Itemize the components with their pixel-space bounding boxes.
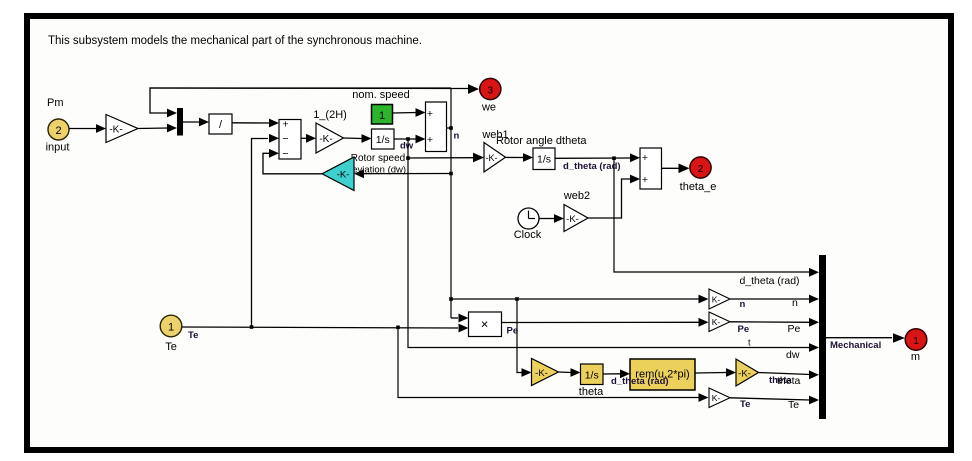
svg-text:This subsystem models the mech: This subsystem models the mechanical par… <box>48 35 422 47</box>
svg-text:input: input <box>46 142 70 154</box>
input port Pm (2) <box>48 119 69 140</box>
wire gain to integrator 1/s <box>344 137 363 140</box>
svg-text:1: 1 <box>379 110 385 122</box>
svg-text:Pe: Pe <box>507 325 519 336</box>
svg-text:K-: K- <box>712 317 721 327</box>
svg-text:1: 1 <box>168 321 174 333</box>
wire 1/s to sum3 <box>555 157 630 159</box>
integrator 1/s (dw) <box>372 129 395 149</box>
product block <box>469 312 502 337</box>
svg-text:-K-: -K- <box>738 368 751 379</box>
svg-text:Te: Te <box>188 330 198 341</box>
svg-text:2: 2 <box>698 164 704 175</box>
gain theta (yellow) <box>532 359 559 386</box>
svg-text:−: − <box>282 148 288 160</box>
junction Te-sum1 <box>250 325 254 329</box>
constant block 1 (green) <box>372 105 393 125</box>
svg-text:Clock: Clock <box>514 229 542 241</box>
gain n (small white) <box>709 289 730 309</box>
svg-text:d_theta (rad): d_theta (rad) <box>611 376 669 387</box>
svg-text:dw: dw <box>786 349 800 361</box>
svg-text:K-: K- <box>712 294 721 304</box>
wire mux1 to divide <box>183 121 200 123</box>
svg-text:1: 1 <box>913 336 919 347</box>
input port Te (1) <box>160 315 182 337</box>
svg-text:d_theta (rad): d_theta (rad) <box>739 275 799 287</box>
wire sum1 to gain 1_(2H) <box>301 137 307 139</box>
mux Mechanical <box>819 255 826 419</box>
divide block / <box>209 114 232 134</box>
svg-text:1/s: 1/s <box>537 154 551 166</box>
svg-text:theta: theta <box>579 386 604 398</box>
gain 1_(2H) <box>316 123 344 153</box>
integrator 1/s theta (yellow) <box>581 364 604 385</box>
svg-text:theta: theta <box>777 375 801 387</box>
svg-text:+: + <box>427 134 433 146</box>
wire Te gain to mux <box>730 398 810 400</box>
svg-text:1_(2H): 1_(2H) <box>313 109 347 121</box>
mux1 <box>177 108 183 136</box>
svg-text:-K-: -K- <box>566 214 579 225</box>
wire 1/s to rem <box>603 373 621 375</box>
svg-text:3: 3 <box>488 85 494 96</box>
svg-text:1/s: 1/s <box>376 134 390 146</box>
wire top we line <box>150 87 469 90</box>
svg-text:Te: Te <box>788 399 799 411</box>
n vertical line <box>450 88 452 318</box>
wire sum2 output to n line <box>447 127 452 129</box>
svg-text:1/s: 1/s <box>585 369 599 381</box>
svg-text:+: + <box>642 152 648 164</box>
svg-text:Rotor angle dtheta: Rotor angle dtheta <box>496 135 587 147</box>
svg-text:Mechanical: Mechanical <box>830 340 881 351</box>
output port m <box>905 329 927 351</box>
svg-text:we: we <box>481 102 496 114</box>
wire n branch down to theta gain <box>517 299 522 373</box>
svg-text:-K-: -K- <box>319 134 332 145</box>
svg-text:Te: Te <box>165 341 177 353</box>
wire dw to gain web1 <box>408 157 474 159</box>
wire n branch to n gain <box>451 298 699 300</box>
wire divide to sum1 <box>232 122 269 124</box>
wire Te branch down to Te gain <box>398 327 699 397</box>
svg-text:×: × <box>481 317 489 332</box>
junction cyan input <box>449 172 453 176</box>
junction d_theta <box>612 156 616 160</box>
wire n to product input1 <box>451 317 458 319</box>
gain Pe (small white) <box>709 312 730 332</box>
gain theta2 (yellow) <box>736 359 759 386</box>
wire constant to sum2 <box>393 112 417 115</box>
svg-text:Pm: Pm <box>47 97 64 109</box>
wire Pm to gain <box>69 128 97 130</box>
wire n line to cyan gain <box>364 173 451 175</box>
svg-text:nom. speed: nom. speed <box>352 89 409 101</box>
svg-text:-K-: -K- <box>337 169 350 180</box>
wire Te to product <box>182 327 458 328</box>
sum1 block <box>279 120 301 160</box>
wire 1/s to sum2 <box>394 138 416 140</box>
gain damping (cyan) <box>322 157 354 191</box>
wire feedback from n line to mux1 <box>150 88 451 113</box>
wire product Pe to Pe gain <box>502 321 700 323</box>
svg-text:+: + <box>427 108 433 120</box>
svg-text:m: m <box>911 351 920 363</box>
gain web1 <box>484 143 506 173</box>
wire web2 to sum3 input2 <box>588 179 631 218</box>
svg-text:2: 2 <box>55 125 61 137</box>
svg-text:-K-: -K- <box>109 125 122 136</box>
wire to integrator theta <box>559 371 572 374</box>
svg-text:Rotor speed: Rotor speed <box>351 153 405 164</box>
wire clock to web2 <box>539 218 555 220</box>
svg-text:n: n <box>454 131 460 142</box>
svg-text:-K-: -K- <box>486 153 498 163</box>
output port theta_e <box>690 157 711 178</box>
gain web2 <box>564 205 588 232</box>
wire theta gain2 to mux <box>759 373 811 375</box>
wire rem to theta gain2 <box>695 372 726 375</box>
svg-text:K-: K- <box>712 393 721 403</box>
sum3 block <box>640 148 662 189</box>
junction theta chain <box>515 297 519 301</box>
svg-text:theta_e: theta_e <box>680 181 717 193</box>
junction Te branch <box>396 326 400 330</box>
svg-text:n: n <box>792 297 798 309</box>
svg-text:web2: web2 <box>563 190 590 202</box>
gain -K- (Pm) <box>106 115 138 143</box>
wire gain to mux1 <box>138 127 168 130</box>
svg-text:Pe: Pe <box>738 324 750 335</box>
wire Te line to sum1 input2 <box>252 139 269 328</box>
sum2 block <box>426 102 447 152</box>
junction dw to web1 <box>406 156 410 160</box>
svg-text:n: n <box>740 299 746 310</box>
wire mux to output m <box>826 337 892 339</box>
Clock <box>518 208 539 229</box>
wire dw down to mux input 4 <box>408 139 810 348</box>
wire Pe gain to mux <box>730 321 810 324</box>
wire cyan gain to sum1 input3 <box>263 153 322 174</box>
svg-text:-K-: -K- <box>535 368 548 379</box>
junction n branch <box>449 297 453 301</box>
svg-text:d_theta (rad): d_theta (rad) <box>563 161 621 172</box>
gain Te (small white) <box>709 388 730 408</box>
svg-text:+: + <box>642 174 648 186</box>
wire n gain to mux <box>730 298 810 300</box>
wire d_theta down to mux input 1 <box>614 158 810 272</box>
svg-text:Te: Te <box>740 399 750 410</box>
svg-text:dw: dw <box>400 141 414 152</box>
junction dw <box>406 137 410 141</box>
output port we <box>480 78 501 99</box>
svg-text:+: + <box>282 119 288 131</box>
svg-text:Pe: Pe <box>788 323 801 335</box>
integrator 1/s (theta rotor) <box>533 148 555 170</box>
rem block <box>630 359 695 390</box>
svg-text:−: − <box>282 133 288 145</box>
wire web1 to 1/s <box>506 156 525 158</box>
wire sum3 to theta_e <box>662 167 680 169</box>
junction n <box>449 126 453 130</box>
